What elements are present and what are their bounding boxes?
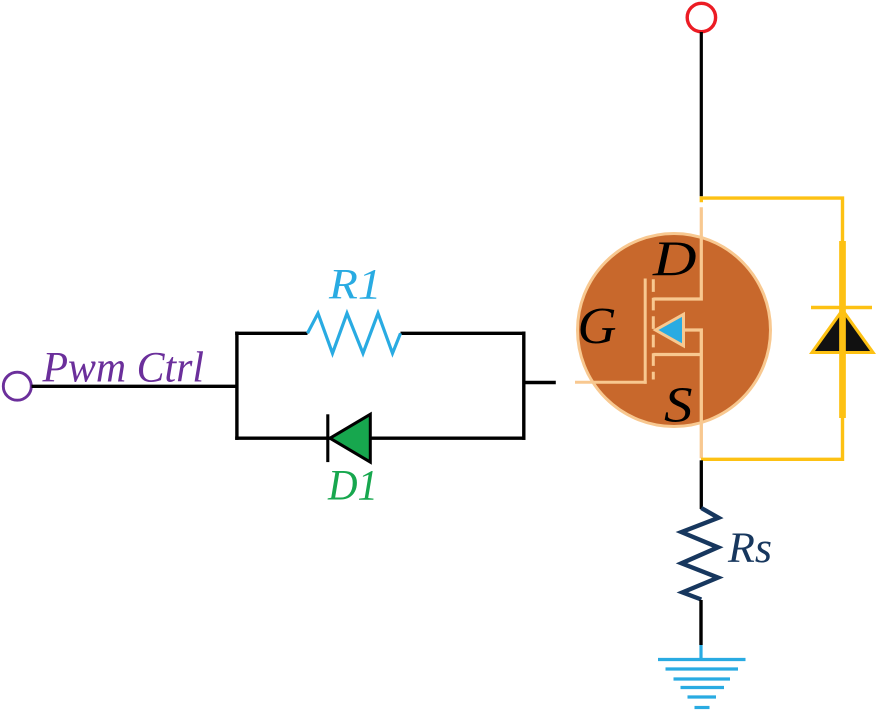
svg-text:D: D xyxy=(652,230,697,286)
svg-text:Rs: Rs xyxy=(727,525,772,572)
svg-text:G: G xyxy=(578,298,617,355)
svg-text:D1: D1 xyxy=(327,463,378,510)
svg-text:R1: R1 xyxy=(328,262,382,309)
svg-text:S: S xyxy=(664,378,693,434)
svg-text:Pwm Ctrl: Pwm Ctrl xyxy=(42,345,204,392)
